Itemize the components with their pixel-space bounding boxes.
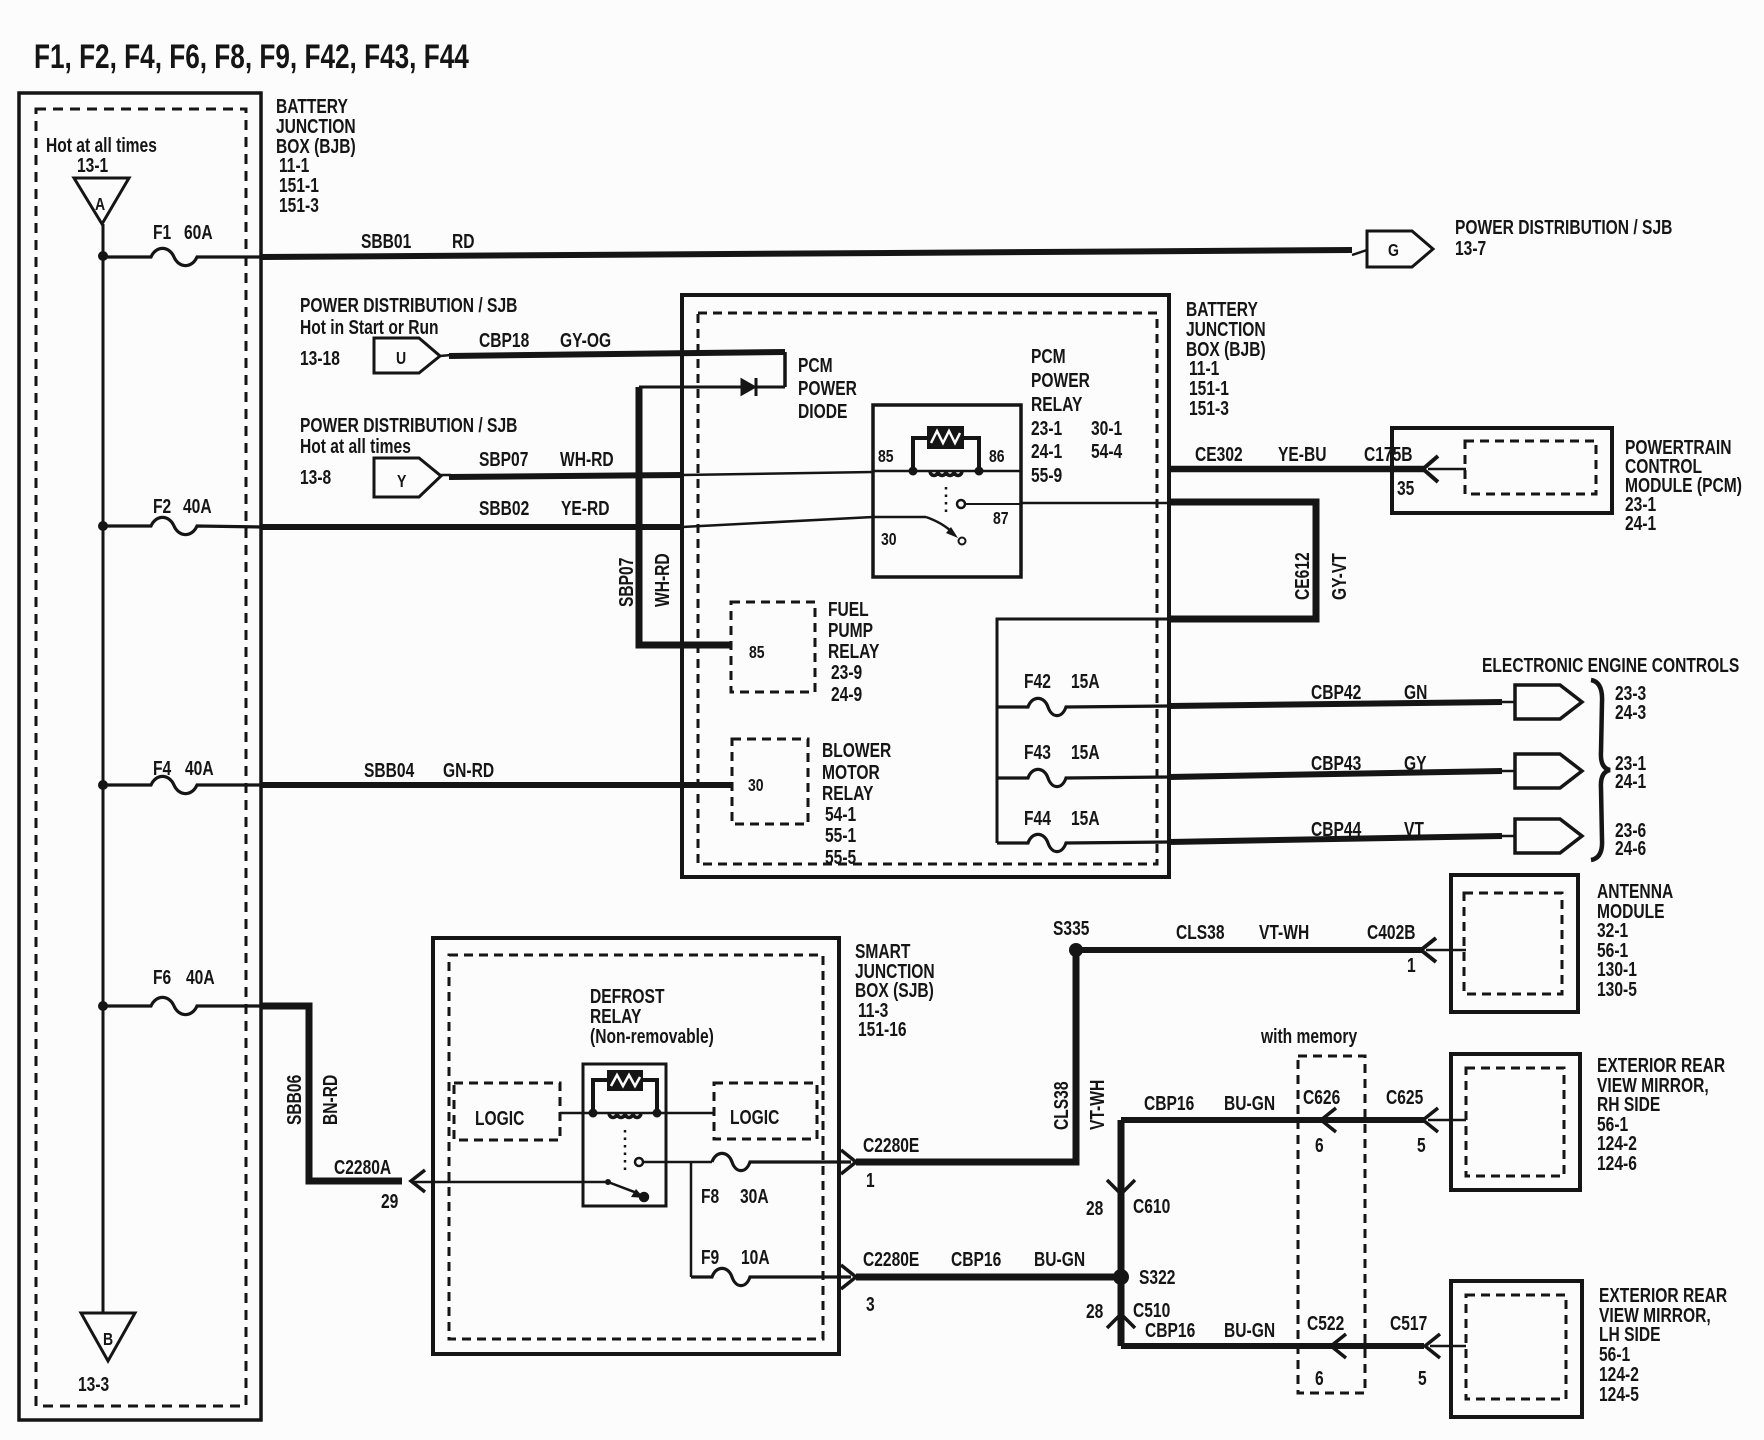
svg-text:GN-RD: GN-RD [443, 759, 494, 781]
svg-text:GY-OG: GY-OG [560, 329, 611, 351]
svg-text:CE302: CE302 [1195, 443, 1243, 465]
svg-text:GN: GN [1404, 681, 1427, 703]
wire SBB02 YE-RD [262, 524, 682, 530]
wire CBP16 BU-GN to S322 [856, 1274, 1121, 1281]
svg-text:15A: 15A [1071, 741, 1100, 763]
svg-text:124-5: 124-5 [1599, 1383, 1639, 1405]
svg-text:with memory: with memory [1260, 1025, 1357, 1047]
svg-text:86: 86 [989, 446, 1005, 466]
svg-text:151-1: 151-1 [279, 174, 319, 196]
wire SBP07 WH-RD [440, 474, 451, 477]
wire CBP43 GY [1169, 771, 1502, 777]
label FUEL PUMP RELAY 23-9 24-9 [828, 598, 879, 705]
svg-text:B: B [103, 1329, 113, 1349]
svg-text:POWER DISTRIBUTION / SJB: POWER DISTRIBUTION / SJB [300, 294, 517, 316]
with memory dashed box [1298, 1056, 1365, 1393]
wire CE612 GY-VT loop [1169, 502, 1316, 619]
svg-text:Hot in Start or Run: Hot in Start or Run [300, 316, 439, 338]
svg-text:130-5: 130-5 [1597, 978, 1637, 1000]
battery junction box (middle) inner dashed border [698, 313, 1157, 864]
svg-text:JUNCTION: JUNCTION [276, 115, 356, 137]
connector C625 arrow [1423, 1108, 1438, 1132]
svg-text:(Non-removable): (Non-removable) [590, 1025, 714, 1047]
fuse F42 15A [997, 698, 1169, 715]
svg-text:5: 5 [1417, 1134, 1426, 1156]
connector C510 arrow [1107, 1314, 1135, 1328]
svg-text:RELAY: RELAY [822, 782, 873, 804]
svg-text:C2280E: C2280E [863, 1248, 919, 1270]
svg-text:40A: 40A [185, 757, 214, 779]
svg-text:SBB04: SBB04 [364, 759, 414, 781]
exterior rear view mirror LH box [1451, 1281, 1582, 1417]
svg-text:JUNCTION: JUNCTION [1186, 318, 1266, 340]
fuse F8 30A [712, 1153, 851, 1170]
svg-text:G: G [1388, 240, 1399, 260]
svg-text:PUMP: PUMP [828, 619, 873, 641]
svg-text:CLS38: CLS38 [1050, 1081, 1072, 1130]
blower motor relay box [732, 739, 808, 824]
fuse F4 40A [103, 776, 262, 793]
connector C2280E pin 3 arrow [841, 1265, 856, 1289]
svg-text:29: 29 [381, 1190, 398, 1212]
svg-text:35: 35 [1397, 477, 1414, 499]
svg-text:F44: F44 [1024, 807, 1051, 829]
connector C626 arrow [1321, 1108, 1336, 1132]
svg-text:BU-GN: BU-GN [1034, 1248, 1085, 1270]
svg-text:151-16: 151-16 [858, 1018, 907, 1040]
connector C2280A arrow [411, 1170, 425, 1192]
defrost relay actuator dotted [624, 1130, 627, 1172]
wire CBP16 BU-GN to RH mirror [1121, 1117, 1424, 1123]
svg-text:POWER: POWER [1031, 369, 1090, 391]
svg-text:23-9: 23-9 [831, 661, 862, 683]
fuse F9 10A branch [690, 1162, 693, 1277]
wire S322 vertical [1118, 1120, 1125, 1346]
svg-text:Y: Y [397, 471, 407, 491]
splice S335 [1069, 943, 1083, 957]
fuse bank bus [997, 619, 1167, 843]
svg-text:10A: 10A [741, 1246, 770, 1268]
svg-text:SBP07: SBP07 [615, 558, 637, 607]
svg-text:13-3: 13-3 [78, 1373, 109, 1395]
wire CE302 YE-BU to PCM [1169, 466, 1426, 473]
svg-text:BLOWER: BLOWER [822, 739, 891, 761]
junction dot F2 [98, 521, 108, 531]
svg-text:151-1: 151-1 [1189, 377, 1229, 399]
svg-text:13-1: 13-1 [77, 154, 108, 176]
label DEFROST RELAY (Non-removable) [590, 985, 714, 1047]
label SMART JUNCTION BOX (SJB) [855, 940, 935, 1040]
wire CBP18 GY-OG [440, 355, 451, 356]
svg-text:CBP44: CBP44 [1311, 818, 1361, 840]
svg-text:CBP16: CBP16 [1145, 1319, 1195, 1341]
svg-text:GY-VT: GY-VT [1328, 553, 1350, 600]
svg-text:124-6: 124-6 [1597, 1152, 1637, 1174]
svg-text:LOGIC: LOGIC [475, 1107, 524, 1129]
relay coil element [928, 427, 963, 448]
svg-text:RELAY: RELAY [1031, 393, 1082, 415]
svg-text:GY: GY [1404, 752, 1427, 774]
fuse F43 15A [997, 769, 1169, 786]
svg-text:U: U [396, 348, 406, 368]
svg-text:F9: F9 [701, 1246, 719, 1268]
label PCM POWER DIODE [798, 354, 857, 422]
svg-text:Hot at all times: Hot at all times [46, 134, 157, 156]
labels engine controls pages [1615, 682, 1646, 859]
svg-text:23-1: 23-1 [1031, 417, 1062, 439]
relay coil line 85-86 [873, 470, 1021, 473]
relay PCM power relay box [873, 405, 1021, 577]
svg-text:FUEL: FUEL [828, 598, 869, 620]
fuse F2 40A [103, 517, 262, 534]
svg-text:Hot at all times: Hot at all times [300, 435, 411, 457]
svg-text:SBB06: SBB06 [283, 1075, 305, 1125]
label BATTERY JUNCTION BOX (BJB) left [276, 95, 356, 216]
svg-text:124-2: 124-2 [1599, 1363, 1639, 1385]
svg-text:BN-RD: BN-RD [319, 1075, 341, 1125]
svg-text:CBP42: CBP42 [1311, 681, 1361, 703]
label POWER DISTRIBUTION / SJB 13-7 [1455, 216, 1672, 259]
svg-text:C626: C626 [1303, 1086, 1340, 1108]
svg-text:PCM: PCM [798, 354, 833, 376]
defrost relay switch arm [605, 1179, 611, 1185]
svg-text:C2280E: C2280E [863, 1134, 919, 1156]
svg-text:30-1: 30-1 [1091, 417, 1122, 439]
svg-text:C517: C517 [1390, 1312, 1427, 1334]
label Hot at all times 13-1 [46, 134, 157, 176]
svg-text:C610: C610 [1133, 1195, 1170, 1217]
svg-text:30: 30 [748, 775, 764, 795]
connector flag CBP42 [1515, 685, 1582, 719]
svg-text:30A: 30A [740, 1185, 769, 1207]
wire pin 30 inside relay [873, 516, 926, 519]
svg-text:24-9: 24-9 [831, 683, 862, 705]
svg-text:CBP16: CBP16 [951, 1248, 1001, 1270]
svg-text:CE612: CE612 [1291, 552, 1313, 600]
wire CLS38 VT-WH to antenna [1076, 947, 1424, 953]
svg-text:24-1: 24-1 [1625, 512, 1656, 534]
svg-text:PCM: PCM [1031, 345, 1066, 367]
wire defrost contact to C2280E pin 1 [643, 1161, 712, 1164]
svg-text:MOTOR: MOTOR [822, 761, 880, 783]
svg-text:ANTENNA: ANTENNA [1597, 880, 1673, 902]
svg-text:RD: RD [452, 230, 475, 252]
svg-text:32-1: 32-1 [1597, 919, 1628, 941]
svg-text:POWER DISTRIBUTION / SJB: POWER DISTRIBUTION / SJB [300, 414, 517, 436]
svg-text:POWER: POWER [798, 377, 857, 399]
logic box left [454, 1083, 560, 1140]
svg-text:RH SIDE: RH SIDE [1597, 1093, 1660, 1115]
connector U flag [374, 338, 440, 373]
label POWER DISTRIBUTION / SJB Hot in Start or Run 13-18 [300, 294, 517, 369]
svg-text:C175B: C175B [1364, 443, 1413, 465]
svg-text:24-3: 24-3 [1615, 701, 1646, 723]
splice S322 [1113, 1269, 1129, 1285]
relay switch arm [926, 517, 953, 533]
defrost relay contact circle [635, 1158, 643, 1166]
relay contact 87 circle [957, 500, 965, 508]
svg-text:A: A [95, 194, 105, 214]
svg-text:RELAY: RELAY [590, 1005, 641, 1027]
label BATTERY JUNCTION BOX (BJB) middle [1186, 298, 1266, 419]
svg-text:YE-RD: YE-RD [561, 497, 610, 519]
svg-text:C402B: C402B [1367, 921, 1416, 943]
svg-text:CLS38: CLS38 [1176, 921, 1225, 943]
svg-text:13-18: 13-18 [300, 347, 340, 369]
junction dot F1 [98, 251, 108, 261]
svg-text:EXTERIOR REAR: EXTERIOR REAR [1597, 1054, 1725, 1076]
svg-text:S322: S322 [1139, 1266, 1175, 1288]
defrost relay coil line [560, 1112, 714, 1115]
battery junction box (left) inner dashed border [36, 109, 246, 1406]
label EXTERIOR REAR VIEW MIRROR LH SIDE [1599, 1284, 1727, 1405]
svg-text:VT: VT [1404, 818, 1424, 840]
svg-text:BU-GN: BU-GN [1224, 1319, 1275, 1341]
svg-text:WH-RD: WH-RD [651, 553, 673, 607]
relay actuator dotted line [945, 487, 948, 517]
svg-text:CBP43: CBP43 [1311, 752, 1361, 774]
svg-text:87: 87 [993, 508, 1009, 528]
svg-text:54-1: 54-1 [825, 803, 856, 825]
svg-text:ELECTRONIC ENGINE CONTROLS: ELECTRONIC ENGINE CONTROLS [1482, 654, 1739, 676]
wire C2280A to defrost relay [413, 1181, 608, 1184]
svg-text:56-1: 56-1 [1599, 1343, 1630, 1365]
brace engine controls [1591, 680, 1610, 860]
wire 87 to box edge [965, 503, 1021, 505]
svg-text:40A: 40A [183, 495, 212, 517]
svg-text:LH SIDE: LH SIDE [1599, 1323, 1661, 1345]
svg-text:SMART: SMART [855, 940, 910, 962]
battery junction box (middle) outer border [682, 295, 1169, 877]
fuse F44 15A [997, 834, 1169, 851]
smart junction box dashed border [449, 955, 823, 1339]
svg-text:28: 28 [1086, 1300, 1103, 1322]
label EXTERIOR REAR VIEW MIRROR RH SIDE [1597, 1054, 1725, 1174]
svg-text:DIODE: DIODE [798, 400, 847, 422]
svg-text:1: 1 [1407, 954, 1416, 976]
svg-text:24-6: 24-6 [1615, 837, 1646, 859]
svg-text:151-3: 151-3 [279, 194, 319, 216]
svg-text:C2280A: C2280A [334, 1156, 391, 1178]
svg-text:LOGIC: LOGIC [730, 1106, 779, 1128]
svg-text:BATTERY: BATTERY [276, 95, 348, 117]
svg-text:11-1: 11-1 [279, 154, 309, 176]
svg-text:BOX (SJB): BOX (SJB) [855, 979, 934, 1001]
connector C2280E pin 1 arrow [841, 1150, 856, 1174]
svg-text:C522: C522 [1307, 1312, 1344, 1334]
svg-text:85: 85 [749, 642, 765, 662]
svg-text:VT-WH: VT-WH [1086, 1080, 1108, 1130]
svg-text:C510: C510 [1133, 1299, 1170, 1321]
svg-text:BATTERY: BATTERY [1186, 298, 1258, 320]
svg-text:13-7: 13-7 [1455, 237, 1486, 259]
svg-text:130-1: 130-1 [1597, 958, 1637, 980]
svg-text:F42: F42 [1024, 670, 1051, 692]
connector flag CBP44 [1515, 819, 1582, 853]
svg-text:15A: 15A [1071, 807, 1100, 829]
wire SBB06 BN-RD [262, 1006, 402, 1181]
svg-text:60A: 60A [184, 221, 213, 243]
svg-text:30: 30 [881, 529, 897, 549]
svg-text:POWER DISTRIBUTION / SJB: POWER DISTRIBUTION / SJB [1455, 216, 1672, 238]
svg-text:SBB01: SBB01 [361, 230, 411, 252]
svg-text:3: 3 [866, 1293, 875, 1315]
svg-text:55-5: 55-5 [825, 846, 856, 868]
diode PCM power diode [741, 379, 756, 396]
svg-text:C625: C625 [1386, 1086, 1423, 1108]
svg-text:SBB02: SBB02 [479, 497, 529, 519]
svg-text:6: 6 [1315, 1134, 1324, 1156]
svg-text:1: 1 [866, 1169, 875, 1191]
wire CBP16 BU-GN to LH mirror [1121, 1343, 1424, 1349]
node A triangle [74, 178, 129, 224]
svg-text:F6: F6 [153, 966, 171, 988]
wire C2280E 1 to S335 [856, 950, 1076, 1162]
fuse F6 40A [103, 997, 262, 1014]
defrost relay box [583, 1064, 666, 1206]
svg-text:WH-RD: WH-RD [560, 448, 614, 470]
svg-text:6: 6 [1315, 1367, 1324, 1389]
defrost relay coil element [608, 1071, 642, 1090]
fuel pump relay box [731, 602, 815, 692]
svg-text:F4: F4 [153, 757, 171, 779]
svg-text:124-2: 124-2 [1597, 1132, 1637, 1154]
wire CBP42 GN [1169, 702, 1502, 706]
smart junction box outer border [433, 938, 839, 1354]
wire CBP44 VT [1169, 836, 1502, 842]
svg-text:11-1: 11-1 [1189, 357, 1219, 379]
label POWERTRAIN CONTROL MODULE (PCM) [1625, 436, 1742, 534]
svg-text:BU-GN: BU-GN [1224, 1092, 1275, 1114]
powertrain control module box [1392, 428, 1612, 513]
svg-text:VT-WH: VT-WH [1259, 921, 1309, 943]
svg-text:RELAY: RELAY [828, 640, 879, 662]
logic box right [714, 1083, 817, 1139]
node B triangle [81, 1313, 135, 1361]
wire bus A to B [102, 224, 105, 1313]
wire SBB01 RD [262, 250, 1352, 257]
wire diode line [639, 386, 785, 389]
antenna module box [1451, 875, 1578, 1012]
label BLOWER MOTOR RELAY 54-1 55-1 55-5 [822, 739, 891, 868]
connector C610 arrow [1107, 1180, 1135, 1194]
svg-text:55-1: 55-1 [825, 824, 856, 846]
label ANTENNA MODULE [1597, 880, 1673, 1000]
svg-text:CBP18: CBP18 [479, 329, 529, 351]
exterior rear view mirror RH box [1451, 1054, 1580, 1190]
svg-text:SBP07: SBP07 [479, 448, 528, 470]
connector Y flag [374, 458, 441, 497]
svg-text:F43: F43 [1024, 741, 1051, 763]
svg-text:55-9: 55-9 [1031, 464, 1062, 486]
svg-text:13-8: 13-8 [300, 466, 331, 488]
svg-text:54-4: 54-4 [1091, 440, 1122, 462]
wire SBB04 GN-RD [262, 782, 732, 788]
connector C522 arrow [1331, 1334, 1346, 1358]
svg-text:15A: 15A [1071, 670, 1100, 692]
junction dot F6 [98, 1001, 108, 1011]
svg-text:DEFROST: DEFROST [590, 985, 665, 1007]
svg-text:5: 5 [1418, 1367, 1427, 1389]
label POWER DISTRIBUTION / SJB Hot at all times 13-8 [300, 414, 517, 488]
svg-text:24-1: 24-1 [1615, 770, 1646, 792]
svg-text:24-1: 24-1 [1031, 440, 1062, 462]
fuse F1 60A [103, 248, 262, 265]
svg-text:151-3: 151-3 [1189, 397, 1229, 419]
connector C517 arrow [1425, 1334, 1440, 1358]
svg-text:S335: S335 [1053, 917, 1089, 939]
label PCM POWER RELAY [1031, 345, 1122, 486]
svg-text:CBP16: CBP16 [1144, 1092, 1194, 1114]
battery junction box (left) outer border [19, 93, 261, 1420]
svg-text:28: 28 [1086, 1197, 1103, 1219]
svg-text:YE-BU: YE-BU [1278, 443, 1327, 465]
junction dot F4 [98, 780, 108, 790]
svg-text:EXTERIOR REAR: EXTERIOR REAR [1599, 1284, 1727, 1306]
svg-text:F1, F2, F4, F6, F8, F9, F42, F: F1, F2, F4, F6, F8, F9, F42, F43, F44 [34, 39, 469, 76]
wire WH-RD vertical to fuel pump relay [639, 387, 731, 645]
connector G flag [1367, 231, 1433, 267]
svg-text:40A: 40A [186, 966, 215, 988]
svg-text:F1: F1 [153, 221, 171, 243]
svg-text:F2: F2 [153, 495, 171, 517]
svg-text:85: 85 [878, 446, 894, 466]
svg-text:F8: F8 [701, 1185, 719, 1207]
connector flag CBP43 [1515, 754, 1582, 788]
wire down to diode [783, 352, 787, 387]
